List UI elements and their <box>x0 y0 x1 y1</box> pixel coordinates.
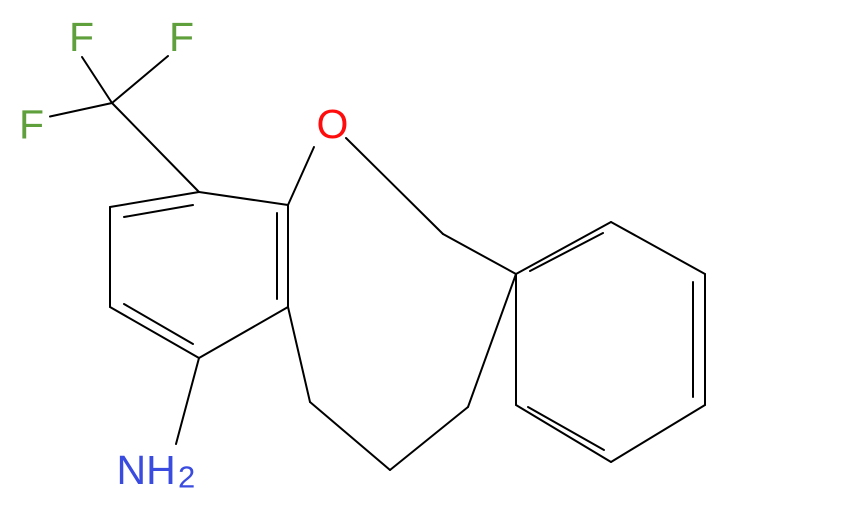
svg-text:NH: NH <box>117 447 176 493</box>
svg-text:F: F <box>169 14 194 60</box>
svg-text:F: F <box>69 14 94 60</box>
svg-text:F: F <box>19 101 44 147</box>
svg-text:O: O <box>317 101 349 147</box>
svg-text:2: 2 <box>178 460 195 495</box>
